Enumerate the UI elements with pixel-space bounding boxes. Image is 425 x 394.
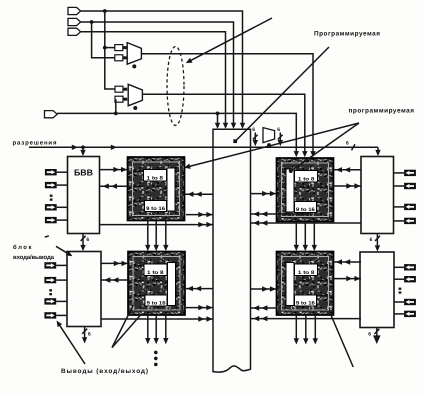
bus width tick 6 on enable wire	[352, 144, 356, 150]
svg-text:6: 6	[346, 141, 349, 147]
buffer G1 input box 1	[115, 45, 123, 51]
I/O pin P4	[45, 217, 57, 223]
I/O pin P11	[404, 204, 416, 210]
dashed ellipse (bus grouping)	[167, 47, 184, 126]
arrow into PIA top from X2	[231, 123, 236, 129]
buffer G2 body	[128, 84, 142, 106]
wire U3 to U4	[376, 234, 378, 248]
svg-text:1 to 8: 1 to 8	[298, 270, 315, 276]
wire macrocell D output no.1	[295, 316, 297, 340]
dot at PIA callout end	[233, 139, 237, 143]
arrowhead at ellipse callout	[185, 58, 193, 66]
wire X1 to PIA top	[81, 11, 243, 125]
svg-text:6: 6	[368, 332, 371, 338]
I/O pin P10	[404, 183, 416, 189]
callout line from label to PIA	[236, 47, 329, 141]
bus macrocell B to U2	[101, 279, 128, 281]
buffer G1 input box 2	[115, 55, 123, 61]
svg-text:1 to 8: 1 to 8	[298, 177, 315, 183]
callout V to macrocell B outputs right arm	[112, 315, 140, 347]
bus macrocell C to PIA	[251, 213, 314, 215]
macrocell block D (bottom-right, mirrored)	[277, 252, 334, 316]
width tick 6 U1-U2	[81, 236, 86, 241]
svg-text:1 to 8: 1 to 8	[147, 176, 164, 182]
wire X4 across to macrocell C	[57, 113, 296, 152]
I/O pin P14	[404, 276, 416, 282]
wire macrocell D output no.3	[314, 316, 316, 340]
callout arm to macrocell A	[186, 123, 360, 167]
wire macrocell C to D no.3	[313, 221, 315, 247]
arrow into U3 top	[375, 150, 380, 156]
wire G1 output to macrocell C top	[141, 54, 313, 153]
callout from label to pin P8	[58, 323, 85, 364]
input pin X4	[45, 111, 58, 118]
ellipsis mark U4 pins	[399, 288, 402, 290]
bus U1 to macrocell A	[100, 169, 128, 171]
bus PIA to macrocell C	[251, 193, 277, 195]
wire macrocell B output no.3	[165, 316, 167, 340]
small dash mark	[45, 236, 49, 237]
buffer G3 bubble	[267, 143, 271, 147]
I/O block U4 (bottom-right)	[360, 252, 394, 328]
wire macrocell A to B no.2	[155, 221, 157, 247]
macrocell block C (top-right, mirrored)	[277, 158, 334, 222]
wire macrocell D output no.2	[305, 316, 307, 340]
I/O pin P12	[404, 218, 416, 224]
svg-text:6: 6	[88, 332, 91, 338]
svg-text:6: 6	[277, 127, 280, 133]
wire X2 to PIA top	[81, 22, 234, 125]
wire enable drop into U3	[377, 147, 379, 151]
wire macrocell B output no.2	[155, 316, 157, 340]
bus macrocell D to PIA	[251, 307, 277, 309]
svg-text:9 to 16: 9 to 16	[296, 301, 315, 307]
bus macrocell D to U4	[334, 278, 362, 280]
svg-text:входа/вывода: входа/вывода	[13, 254, 55, 261]
arrow into macrocell C from G2	[302, 151, 307, 157]
PIA block (central programmable interconnect, torn bottom)	[213, 129, 251, 372]
wire macrocell C to D no.2	[304, 221, 306, 247]
buffer G2 input box 2	[115, 96, 123, 102]
I/O pin P7	[44, 298, 56, 304]
node on X1 line	[103, 9, 107, 13]
buffer G2 bubble	[133, 106, 137, 110]
svg-text:6: 6	[86, 237, 89, 243]
bus U4 to macrocell D	[334, 261, 361, 263]
I/O pin P16	[404, 311, 416, 317]
width tick 6 U3-U4	[375, 236, 380, 241]
I/O pin P15	[404, 299, 416, 305]
svg-text:6: 6	[370, 237, 373, 243]
wire macrocell A to B no.3	[165, 221, 167, 247]
bus U2 to macrocell B	[101, 262, 128, 264]
ellipsis dots below macrocell B	[154, 351, 158, 355]
arrow into macrocell C from G1	[310, 151, 315, 157]
callout line to U2	[56, 246, 71, 255]
callout line to ellipse	[188, 18, 273, 62]
I/O block U2 (bottom-left)	[67, 252, 101, 327]
bus macrocell C to U3	[334, 185, 362, 187]
macrocell block B (bottom-left)	[128, 252, 185, 316]
wire G2 output to macrocell C top	[142, 94, 304, 152]
callout V to macrocell B outputs left arm	[112, 305, 133, 347]
bus U3 to PIA lower	[251, 222, 362, 224]
svg-text:программируемая: программируемая	[349, 107, 415, 114]
bus U3 to macrocell C	[334, 169, 361, 171]
node enable to U1	[81, 145, 85, 149]
wire X4 branch into PIA top	[217, 113, 219, 124]
ellipsis mark U2 pins	[49, 289, 52, 291]
bus U1 to PIA	[100, 224, 214, 226]
bus macrocell A to PIA	[186, 214, 213, 216]
wire macrocell A to B no.1	[147, 221, 149, 247]
width tick 6 U2 out	[82, 329, 87, 334]
enable wire across	[29, 146, 378, 148]
bus PIA to macrocell B	[184, 288, 213, 290]
arrow into PIA top from X1	[240, 123, 245, 129]
I/O pin P1	[45, 169, 57, 175]
arrow into U1 top	[80, 150, 85, 156]
arrow on enable wire	[72, 145, 78, 150]
dot at macrocell C callout end	[289, 169, 293, 173]
input pin X1	[68, 7, 81, 14]
wire X1 branch down to gates	[105, 11, 115, 89]
svg-text:6: 6	[252, 127, 255, 133]
bus macrocell A to U1	[100, 185, 128, 187]
wire U2 output down	[84, 327, 86, 339]
wire G2 input 2 stem to X4 line	[115, 99, 117, 113]
bus macrocell B to PIA	[186, 307, 213, 309]
arrow into PIA top from X3	[223, 123, 228, 129]
I/O pin P9	[404, 170, 416, 176]
callout arm to macrocell C	[292, 123, 359, 170]
ellipsis mark U1 pins	[50, 195, 53, 197]
width tick 6 U4 out	[374, 329, 379, 334]
I/O pin P8	[44, 312, 56, 318]
I/O block U1 (top-left, БВВ)	[68, 157, 100, 234]
I/O pin P6	[44, 277, 56, 283]
svg-text:9 to 16: 9 to 16	[147, 301, 166, 307]
bus U2 to PIA	[101, 318, 213, 320]
arrowhead at macrocell A callout	[183, 164, 190, 171]
input pin X3	[68, 28, 81, 35]
buffer G1 bubble	[132, 64, 136, 68]
I/O pin P5	[44, 262, 56, 268]
buffer G3 (output enable)	[263, 128, 275, 143]
wire macrocell B output no.1	[147, 316, 149, 340]
clock arrow into PIA shelf right	[279, 133, 281, 142]
bus U4 to PIA lower	[251, 318, 362, 320]
wire enable drop into U1	[82, 147, 84, 151]
node G2 stem	[114, 112, 118, 116]
arrow into macrocell C from X4	[294, 151, 299, 157]
node gate branch	[103, 46, 107, 50]
I/O pin P3	[45, 204, 57, 210]
wire X2 branch to G1 input 2	[92, 22, 116, 58]
wire branch to G1 input 1	[105, 47, 115, 49]
wire U1 to U2	[82, 234, 84, 247]
svg-text:разрешения: разрешения	[13, 140, 57, 146]
node X4 to PIA	[216, 112, 220, 116]
callout line at macrocell D border	[329, 311, 353, 367]
svg-text:9 to 16: 9 to 16	[296, 207, 315, 213]
input pin X2	[68, 18, 81, 25]
svg-text:Программируемая: Программируемая	[314, 31, 380, 38]
bus PIA to macrocell D	[251, 288, 277, 290]
wire macrocell C to D no.1	[295, 221, 297, 247]
macrocell block A (top-left)	[128, 157, 185, 221]
arrow on enable wire	[111, 145, 117, 150]
svg-text:Выводы (вход/выход): Выводы (вход/выход)	[61, 368, 148, 375]
wire X3 to PIA top	[81, 32, 226, 125]
wire U4 output down	[376, 328, 378, 338]
svg-text:9 to 16: 9 to 16	[146, 206, 165, 212]
I/O pin P2	[45, 182, 57, 188]
bus PIA to macrocell A	[185, 193, 213, 195]
I/O block U3 (top-right)	[361, 157, 394, 234]
clock arrow into PIA shelf left	[254, 133, 256, 142]
I/O pin P13	[404, 264, 416, 270]
svg-text:БВВ: БВВ	[74, 168, 93, 178]
svg-text:1 to 8: 1 to 8	[147, 270, 164, 276]
buffer G1 body	[127, 43, 141, 65]
arrow into PIA top from X4	[215, 123, 220, 129]
node on X2 line	[90, 20, 94, 24]
buffer G2 input box 1	[115, 86, 123, 92]
